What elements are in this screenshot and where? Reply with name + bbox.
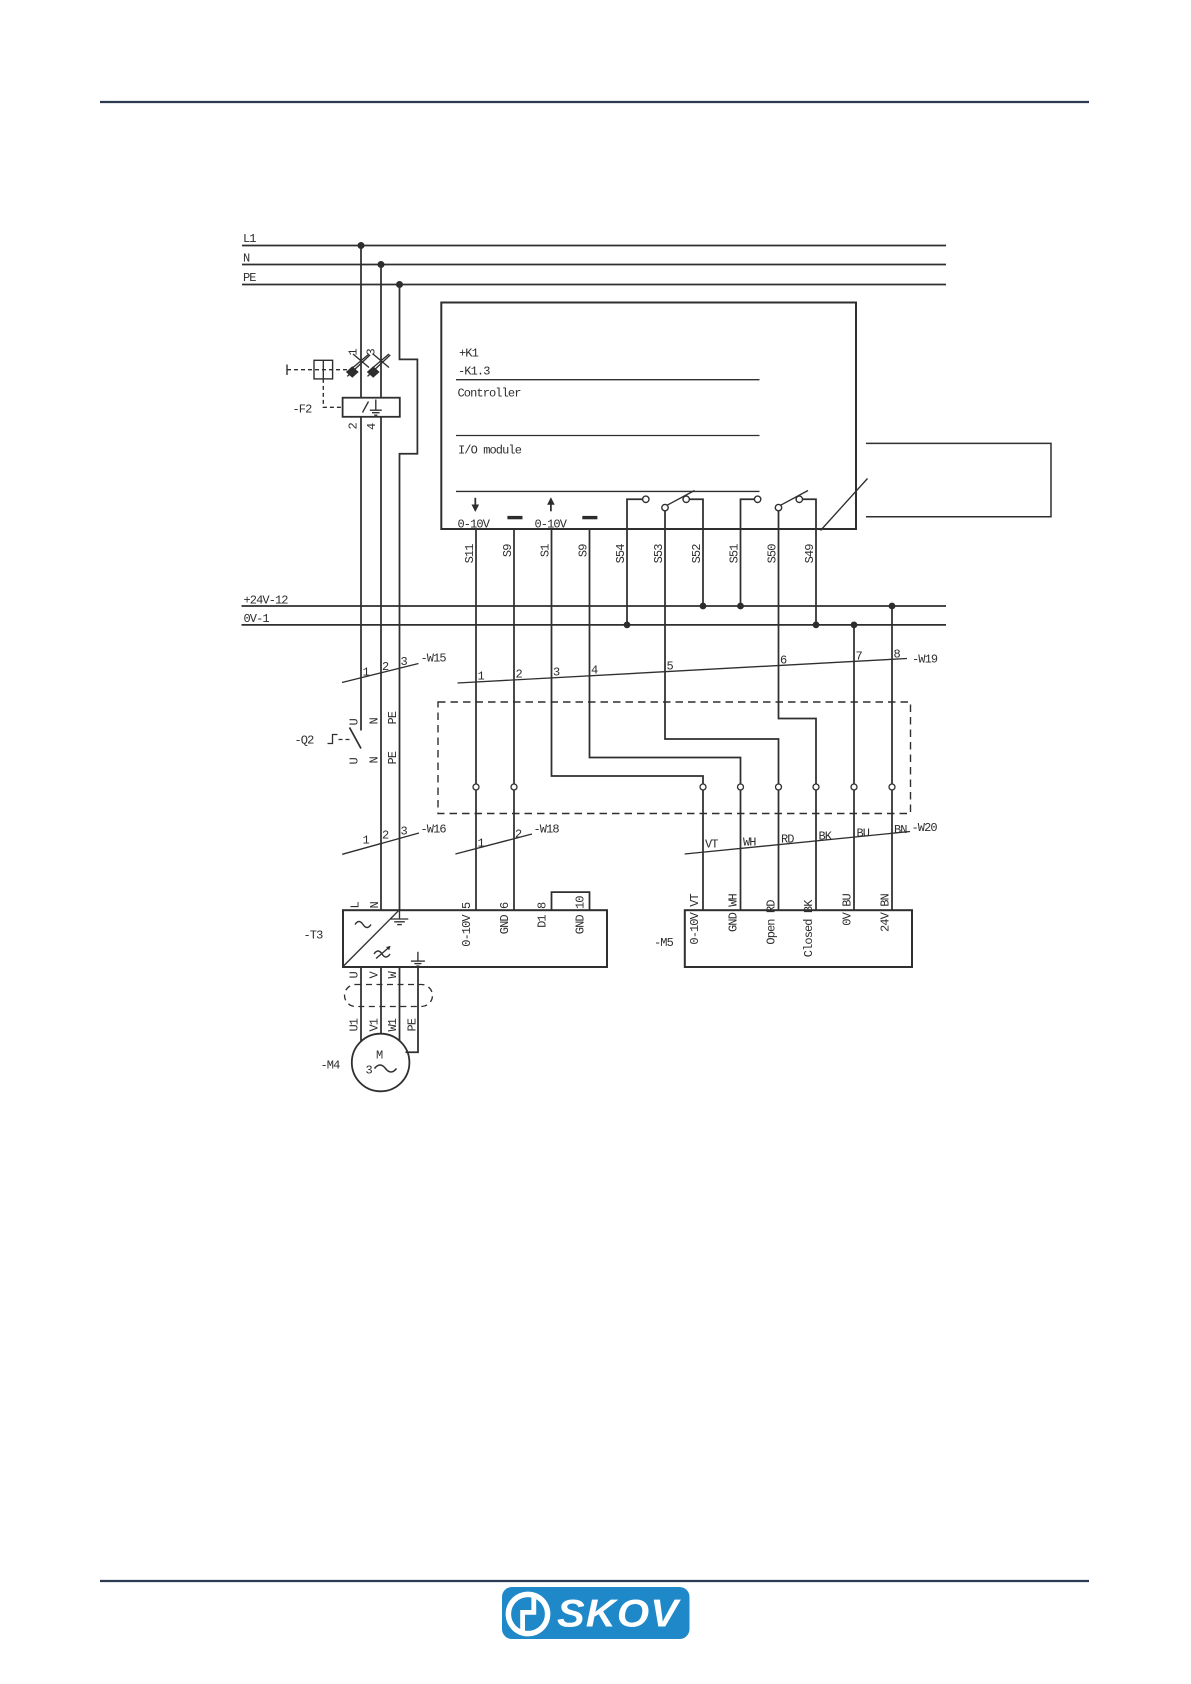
svg-text:Open RD: Open RD	[765, 900, 779, 945]
breaker -F2 linkage to trip unit dashed	[323, 379, 342, 407]
breaker -F2 trip unit box	[343, 398, 400, 417]
wire S9 to -T3	[513, 529, 515, 910]
svg-text:Closed BK: Closed BK	[802, 899, 816, 957]
svg-text:0-10V 5: 0-10V 5	[460, 902, 474, 947]
wire U from -F2 to -Q2	[360, 417, 362, 731]
svg-text:-W16: -W16	[421, 823, 447, 837]
wire S9b stepping to -M5 GND	[590, 529, 741, 910]
svg-text:PE: PE	[406, 1018, 420, 1031]
jumper D1-GND	[552, 892, 590, 910]
svg-text:GND 10: GND 10	[574, 896, 588, 935]
controller box +K1 -K1.3	[441, 303, 856, 530]
footer rule	[100, 1580, 1089, 1582]
wire L1 drop to -F2	[360, 246, 362, 398]
breaker -F2 magnetic element pole 2	[367, 366, 380, 377]
junction S51 on +24V	[737, 603, 744, 610]
svg-text:-W18: -W18	[534, 823, 560, 837]
svg-text:U1: U1	[348, 1018, 362, 1031]
svg-text:GND 6: GND 6	[498, 902, 512, 934]
wire S11 to -T3	[475, 529, 477, 910]
net L1 rail	[242, 232, 946, 246]
relay contact group 1: S52 terminal	[683, 496, 703, 529]
svg-text:W1: W1	[386, 1018, 400, 1031]
junction N	[378, 261, 385, 268]
svg-text:-Q2: -Q2	[295, 734, 315, 748]
svg-text:1: 1	[363, 834, 370, 848]
svg-text:3: 3	[553, 666, 560, 680]
breaker -F2 pole 1 contact X	[353, 354, 369, 368]
svg-text:L1: L1	[243, 232, 256, 246]
svg-text:S54: S54	[614, 544, 628, 564]
junction PE	[396, 281, 403, 288]
svg-text:S53: S53	[652, 544, 666, 564]
svg-text:+K1: +K1	[459, 347, 479, 361]
svg-text:-W15: -W15	[421, 652, 447, 666]
svg-text:N: N	[368, 718, 382, 725]
connector pin 6	[813, 784, 819, 790]
switch -Q2 actuator dashed	[339, 739, 352, 741]
svg-text:8: 8	[894, 648, 901, 662]
svg-text:1: 1	[347, 349, 361, 356]
wire V to motor	[380, 967, 382, 1034]
svg-text:S9: S9	[501, 544, 515, 557]
svg-text:WH: WH	[743, 836, 756, 850]
analog output arrow down	[472, 498, 480, 512]
wire S54 to 0V bus	[626, 529, 628, 625]
relay contact group 2: S51 terminal	[741, 496, 761, 529]
svg-text:2: 2	[516, 668, 523, 682]
minus bar 2	[582, 516, 597, 519]
separator line 3	[456, 490, 760, 492]
svg-text:BU: BU	[857, 827, 870, 841]
svg-text:0-10V: 0-10V	[458, 518, 491, 532]
svg-text:2: 2	[515, 828, 522, 842]
switch -Q2 blade	[350, 728, 362, 749]
separator line 2	[456, 435, 760, 437]
svg-text:V: V	[368, 971, 382, 979]
cable -W16	[342, 823, 446, 855]
svg-text:-T3: -T3	[304, 929, 324, 943]
junction 0V feed	[851, 622, 858, 629]
SKOV logo	[502, 1587, 690, 1639]
svg-text:-W19: -W19	[912, 653, 938, 667]
-T3 sine symbol	[355, 922, 371, 928]
svg-text:0-10V VT: 0-10V VT	[688, 893, 702, 944]
svg-text:3: 3	[366, 1064, 373, 1078]
shielded cable symbol dashed capsule	[345, 985, 433, 1007]
cable -W20	[685, 821, 938, 854]
junction S54 on 0V	[624, 622, 631, 629]
wire +24V to -M5 24V	[891, 606, 893, 910]
svg-text:6: 6	[780, 654, 787, 668]
connector pin 4	[738, 784, 744, 790]
svg-text:-F2: -F2	[293, 403, 313, 417]
breaker -F2 linkage dashed	[287, 365, 347, 376]
wire U to motor	[360, 967, 362, 1042]
-T3 variable frequency symbol	[374, 946, 391, 959]
wire W to motor	[399, 967, 401, 1042]
svg-text:PE: PE	[386, 751, 400, 764]
wire 0V to -M5 0V	[853, 625, 855, 910]
connector pin 2	[511, 784, 517, 790]
svg-text:S1: S1	[539, 544, 553, 557]
wire S53 stepping to -M5 Open	[665, 529, 779, 910]
callout note box	[866, 443, 1051, 516]
svg-text:3: 3	[365, 349, 379, 356]
svg-text:U: U	[348, 972, 362, 979]
svg-text:3: 3	[401, 825, 408, 839]
relay contact group 1: S54 terminal	[627, 496, 649, 529]
svg-text:N: N	[368, 902, 382, 909]
svg-text:BN: BN	[894, 823, 907, 837]
svg-text:D1 8: D1 8	[536, 902, 550, 928]
junction +24V feed	[889, 603, 896, 610]
svg-text:7: 7	[856, 650, 863, 664]
junction L1	[358, 242, 365, 249]
motor -M4 circle	[352, 1034, 410, 1092]
connector pin 8	[889, 784, 895, 790]
svg-text:1: 1	[478, 837, 485, 851]
net N rail	[242, 252, 946, 266]
-T3 inner earth symbol	[411, 952, 425, 966]
svg-text:BK: BK	[819, 830, 833, 844]
minus bar 1	[507, 516, 522, 519]
svg-text:0V BU: 0V BU	[841, 893, 855, 925]
wire PE to motor	[406, 967, 419, 1052]
svg-text:-K1.3: -K1.3	[458, 365, 490, 379]
cable -W15	[342, 652, 446, 683]
actuator -M5 box	[685, 910, 912, 967]
svg-text:S50: S50	[766, 544, 780, 564]
svg-text:M: M	[376, 1049, 383, 1063]
wire N from -F2 to -T3	[380, 417, 382, 910]
connector pin 3	[700, 784, 706, 790]
connector pin 5	[776, 784, 782, 790]
svg-text:S52: S52	[690, 544, 704, 564]
frequency converter -T3 box	[343, 910, 607, 967]
wire S50 stepping to -M5 Closed	[779, 529, 817, 910]
breaker -F2 pole 2 contact X	[373, 354, 389, 368]
svg-text:S49: S49	[803, 544, 817, 564]
svg-text:5: 5	[667, 660, 674, 674]
trip unit slash symbol	[363, 402, 369, 413]
relay contact group 2: S50 common and blade	[775, 491, 808, 530]
header rule	[100, 101, 1089, 103]
wire S51 to +24V bus	[740, 529, 742, 606]
svg-text:W: W	[386, 971, 400, 979]
svg-text:N: N	[243, 252, 250, 266]
svg-text:2: 2	[382, 829, 389, 843]
switch -Q2 F symbol	[328, 735, 338, 744]
svg-text:4: 4	[591, 664, 598, 678]
connector pin 7	[851, 784, 857, 790]
svg-text:3: 3	[401, 655, 408, 669]
-T3 PE earth symbol at top	[391, 910, 409, 924]
svg-text:GND WH: GND WH	[727, 893, 741, 932]
breaker -F2 test element square	[314, 360, 333, 379]
svg-text:U: U	[348, 758, 362, 765]
svg-text:0V-1: 0V-1	[244, 612, 270, 626]
connector dashed box	[438, 702, 911, 814]
wire S52 to +24V bus	[702, 529, 704, 606]
wire PE drop with bypass jog around -F2	[400, 285, 418, 911]
cable -W18	[455, 823, 559, 855]
separator line 1	[456, 379, 760, 381]
connector pin 1	[473, 784, 479, 790]
svg-text:I/O module: I/O module	[458, 444, 522, 458]
svg-text:V1: V1	[368, 1018, 382, 1031]
callout leader line	[821, 479, 868, 531]
svg-text:2: 2	[347, 423, 361, 430]
svg-text:S51: S51	[728, 544, 742, 564]
analog input arrow up	[547, 497, 555, 511]
trip unit earth symbol	[370, 400, 382, 416]
breaker -F2 magnetic element pole 1	[346, 366, 359, 377]
net +24V-12 bus	[242, 594, 947, 608]
junction S52 on +24V	[700, 603, 707, 610]
svg-text:24V BN: 24V BN	[879, 893, 893, 932]
svg-text:S11: S11	[463, 544, 477, 564]
svg-text:N: N	[368, 757, 382, 764]
relay contact group 2: S49 terminal	[796, 496, 816, 529]
svg-text:1: 1	[363, 666, 370, 680]
svg-text:4: 4	[365, 423, 379, 430]
net PE rail	[242, 271, 946, 285]
svg-text:-M4: -M4	[321, 1059, 341, 1073]
motor tilde	[375, 1065, 397, 1072]
svg-text:S9: S9	[577, 544, 591, 557]
wire S1 stepping to -M5 0-10V	[552, 529, 704, 910]
svg-text:VT: VT	[705, 838, 718, 852]
net 0V-1 bus	[242, 612, 947, 626]
svg-text:SKOV: SKOV	[557, 1593, 681, 1636]
wire N drop to -F2	[380, 265, 382, 398]
cable -W19	[458, 648, 938, 684]
svg-text:+24V-12: +24V-12	[244, 594, 289, 608]
svg-text:1: 1	[478, 670, 485, 684]
svg-text:PE: PE	[243, 271, 256, 285]
svg-text:2: 2	[382, 660, 389, 674]
svg-text:U: U	[348, 719, 362, 726]
breaker -F2 blade pole 1	[347, 355, 370, 377]
junction S49 on 0V	[813, 622, 820, 629]
svg-text:PE: PE	[386, 711, 400, 724]
svg-text:L: L	[349, 902, 363, 909]
-T3 divider diagonal	[344, 911, 399, 966]
wire S49 to 0V bus	[815, 529, 817, 625]
svg-text:-M5: -M5	[654, 936, 674, 950]
relay contact group 1: S53 common and blade	[662, 491, 695, 530]
svg-text:RD: RD	[781, 833, 794, 847]
svg-text:-W20: -W20	[912, 821, 938, 835]
breaker -F2 blade pole 2	[368, 355, 391, 377]
svg-text:Controller: Controller	[458, 387, 522, 401]
